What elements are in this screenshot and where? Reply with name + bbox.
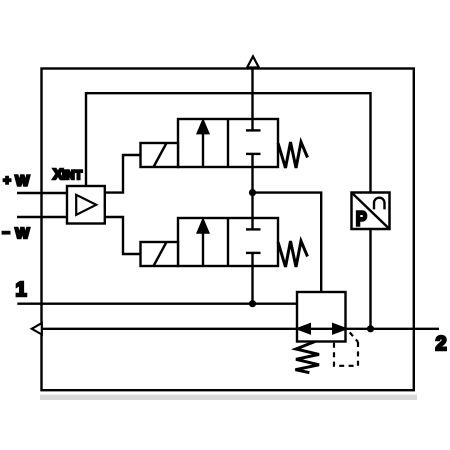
return spring V1 xyxy=(278,142,308,168)
svg-text:P: P xyxy=(356,208,367,230)
label XINT internal setpoint xyxy=(53,166,83,183)
return spring V2 xyxy=(278,241,308,267)
pressure sensor P1 xyxy=(352,193,390,231)
wire: node A to regulator pilot xyxy=(253,193,322,292)
svg-text:X: X xyxy=(53,166,63,183)
pressure regulator PR1 xyxy=(297,292,346,342)
regulator adjustment dashed xyxy=(334,332,358,365)
wire: sensor to port 2 line xyxy=(369,229,371,329)
shadow xyxy=(40,395,417,400)
junction node A xyxy=(249,189,256,196)
device enclosure xyxy=(42,69,414,391)
wire: port 2 / exhaust line xyxy=(42,328,440,330)
wire: amplifier output to solenoid Y1 xyxy=(105,155,141,193)
wire: port 1 supply line xyxy=(17,303,297,305)
junction node B xyxy=(249,300,256,307)
svg-text:W: W xyxy=(15,172,30,189)
wire: feedback line from pressure sensor to amplifier xyxy=(86,93,371,192)
valve V2 2/2-way xyxy=(178,218,278,266)
solenoid Y1 xyxy=(141,143,179,167)
svg-text:W: W xyxy=(15,225,30,242)
wire: V1 to V2 xyxy=(251,167,253,218)
svg-text:+: + xyxy=(3,173,11,188)
regulator spring xyxy=(295,342,319,373)
exhaust arrow port 3 xyxy=(32,323,42,334)
wire: -W input xyxy=(17,216,67,218)
exhaust vent triangle xyxy=(247,56,259,67)
wire: exhaust riser from valve V1 to vent xyxy=(251,69,253,120)
amplifier U1 xyxy=(67,186,105,224)
valve V1 2/2-way xyxy=(178,119,278,167)
wire: amplifier output to solenoid Y2 xyxy=(105,217,141,254)
svg-text:INT: INT xyxy=(62,170,82,182)
svg-text:2: 2 xyxy=(436,333,447,355)
solenoid Y2 xyxy=(141,242,179,266)
junction node C xyxy=(367,325,374,332)
wire: V2 to supply line xyxy=(251,266,253,304)
wire: +W input xyxy=(17,192,67,194)
svg-text:1: 1 xyxy=(16,279,27,301)
svg-text:−: − xyxy=(2,225,10,240)
